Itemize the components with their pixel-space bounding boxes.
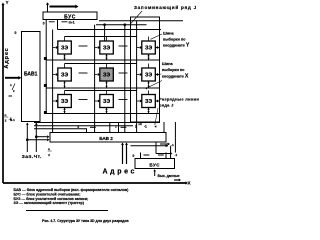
svg-text:n: n <box>5 113 7 117</box>
svg-text:Y: Y <box>6 0 9 5</box>
svg-text:выборки по: выборки по <box>163 38 186 42</box>
svg-text:БАВ 2: БАВ 2 <box>99 136 113 141</box>
svg-text:ЗЭ: ЗЭ <box>145 46 152 52</box>
svg-text:n: n <box>10 83 12 87</box>
svg-text:ЗЭ: ЗЭ <box>145 73 152 79</box>
svg-text:ЗЭ: ЗЭ <box>103 99 110 105</box>
svg-text:0: 0 <box>43 21 45 25</box>
svg-text:Адрес: Адрес <box>103 169 137 176</box>
svg-text:БАВ1: БАВ1 <box>24 72 38 78</box>
svg-text:2: 2 <box>135 125 137 129</box>
svg-text:ЗЭ: ЗЭ <box>61 99 68 105</box>
svg-text:ЗЭ: ЗЭ <box>61 46 68 52</box>
svg-text:ЗЭ: ЗЭ <box>61 73 68 79</box>
svg-text:БУС — блок усилителей считыван: БУС — блок усилителей считывания; <box>14 192 81 196</box>
svg-text:Адрес: Адрес <box>4 47 10 68</box>
svg-text:n: n <box>48 147 50 151</box>
svg-text:ЗЭ: ЗЭ <box>103 73 110 79</box>
svg-text:Шина: Шина <box>162 62 173 66</box>
svg-text:Рис. 4.7. Структура ЗУ типа 3D: Рис. 4.7. Структура ЗУ типа 3D для двух … <box>42 219 130 223</box>
svg-text:-1: -1 <box>171 143 174 147</box>
svg-text:m-1: m-1 <box>69 21 75 25</box>
svg-text:-1: -1 <box>144 125 147 129</box>
svg-text:Зап.Чт.: Зап.Чт. <box>22 154 42 160</box>
svg-text:N-1: N-1 <box>10 118 15 122</box>
svg-text:Разрядные линии: Разрядные линии <box>159 97 199 102</box>
svg-text:0: 0 <box>133 154 135 158</box>
svg-text:-1: -1 <box>175 153 178 157</box>
svg-text:Вых. данные: Вых. данные <box>158 174 180 178</box>
svg-text:БУС: БУС <box>149 162 160 167</box>
svg-text:0: 0 <box>15 31 17 35</box>
svg-text:выборки по: выборки по <box>162 68 185 72</box>
svg-text:Шина: Шина <box>163 32 174 36</box>
svg-text:БУС: БУС <box>64 14 76 20</box>
svg-text:БУЗ — блок усилителей сигналов: БУЗ — блок усилителей сигналов записи; <box>14 197 89 201</box>
svg-text:ЗЭ — запоминающий элемент (три: ЗЭ — запоминающий элемент (триггер) <box>14 201 85 205</box>
svg-text:ряда J: ряда J <box>159 103 174 108</box>
svg-text:БАВ — блок адресной выборки (в: БАВ — блок адресной выборки (вкл. формир… <box>14 188 130 192</box>
svg-text:ЗЭ: ЗЭ <box>145 99 152 105</box>
svg-text:Запоминающий ряд J: Запоминающий ряд J <box>134 4 197 10</box>
svg-text:ЗЭ: ЗЭ <box>103 46 110 52</box>
